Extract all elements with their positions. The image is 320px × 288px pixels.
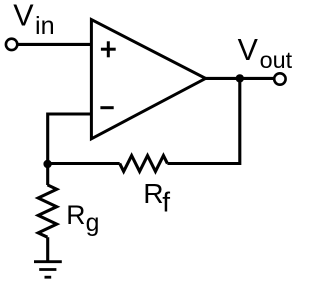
ground [34, 262, 62, 278]
wire node to R_g [46, 164, 49, 186]
svg-text:out: out [260, 47, 293, 73]
svg-text:R: R [143, 177, 163, 209]
terminal V_in [6, 39, 17, 50]
terminal V_out [274, 73, 285, 84]
wire V_in to op-amp [17, 43, 91, 46]
plus input symbol [101, 41, 116, 57]
junction dot inverting node [43, 160, 51, 168]
resistor R_g [38, 185, 57, 237]
wire feedback down and left [167, 78, 239, 163]
svg-text:g: g [86, 210, 100, 237]
svg-text:f: f [162, 187, 170, 218]
junction dot output node [236, 74, 244, 82]
op-amp U1 [91, 20, 205, 139]
svg-text:in: in [35, 12, 55, 40]
minus input symbol [100, 106, 113, 109]
wire R_g to ground [46, 237, 49, 262]
svg-text:V: V [13, 0, 34, 33]
wire op-amp output [204, 77, 274, 80]
svg-text:R: R [66, 200, 85, 230]
resistor R_f [120, 156, 168, 172]
svg-text:V: V [238, 33, 259, 67]
wire R_f to node [48, 162, 120, 165]
wire minus input to left rail [48, 114, 92, 164]
